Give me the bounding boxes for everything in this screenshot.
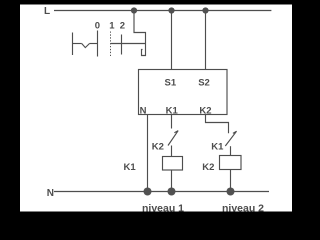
wire K1 bottom stub xyxy=(171,146,173,157)
wire S2 from L to box xyxy=(205,11,207,70)
node A junction dot xyxy=(131,7,137,13)
wire N from box to rail xyxy=(147,115,149,192)
switch S contact wire left segment xyxy=(73,43,82,45)
node niveau1a junction dot xyxy=(144,188,152,196)
switch S moving contact V xyxy=(82,44,90,48)
mechanical linkage (dashed) position 1 xyxy=(110,32,112,58)
relay box U1 xyxy=(139,70,228,115)
node B junction dot xyxy=(168,7,174,13)
svg-text:K2: K2 xyxy=(199,105,211,116)
svg-text:niveau 2: niveau 2 xyxy=(222,203,264,215)
contact K2 moving blade xyxy=(168,131,178,146)
node C junction dot xyxy=(202,7,208,13)
node niveau2 junction dot xyxy=(227,188,235,196)
switch position bar 0 xyxy=(97,31,99,57)
wire K2 step from box xyxy=(206,115,229,134)
white drawing area xyxy=(20,5,292,212)
svg-text:1: 1 xyxy=(109,20,115,31)
svg-text:K2: K2 xyxy=(152,142,164,153)
wire K2 bottom stub xyxy=(230,146,232,156)
svg-text:0: 0 xyxy=(95,20,100,31)
line L (phase rail) xyxy=(54,10,271,12)
line N (neutral rail) xyxy=(54,191,269,193)
svg-text:2: 2 xyxy=(120,20,125,31)
svg-text:K1: K1 xyxy=(124,162,137,173)
node niveau1b junction dot xyxy=(168,188,176,196)
switch S left fixed bar xyxy=(72,33,74,56)
wire coil K2 to rail xyxy=(230,170,232,192)
wire S1 from L to box xyxy=(171,11,173,70)
svg-text:K1: K1 xyxy=(211,142,224,153)
svg-text:K2: K2 xyxy=(202,162,214,173)
switch position bar 2 xyxy=(121,35,123,55)
wire from node A down to selector switch xyxy=(134,11,146,57)
svg-text:K1: K1 xyxy=(166,105,179,116)
svg-text:N: N xyxy=(140,105,147,116)
coil K1 xyxy=(163,157,183,171)
svg-text:S1: S1 xyxy=(165,77,177,88)
wire K1 top stub xyxy=(171,115,173,129)
wire coil K1 to rail xyxy=(171,170,173,192)
svg-text:N: N xyxy=(47,188,54,199)
switch S contact wire right segment xyxy=(90,43,98,45)
svg-text:niveau 1: niveau 1 xyxy=(142,203,184,215)
contact K1 moving blade xyxy=(225,131,236,146)
svg-text:L: L xyxy=(44,6,50,17)
coil K2 xyxy=(220,156,242,170)
svg-text:S2: S2 xyxy=(198,77,210,88)
switch right contact wire xyxy=(111,43,146,45)
rotary actuator hook xyxy=(142,50,147,56)
